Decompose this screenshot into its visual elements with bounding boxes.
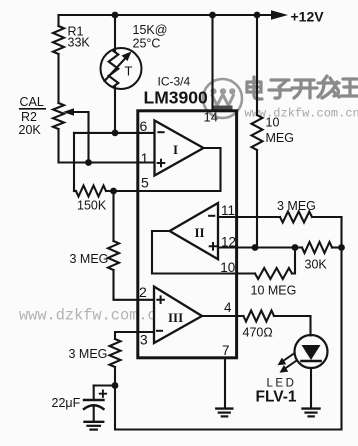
svg-text:R2: R2 (21, 110, 37, 124)
svg-text:MEG: MEG (266, 131, 294, 145)
svg-text:1: 1 (141, 150, 149, 166)
svg-text:LM3900: LM3900 (144, 88, 208, 108)
svg-text:25°C: 25°C (133, 37, 161, 51)
svg-text:11: 11 (221, 203, 235, 218)
svg-text:15K@: 15K@ (133, 23, 168, 37)
svg-text:30K: 30K (305, 258, 328, 272)
svg-text:www.dzkfw.com.cn: www.dzkfw.com.cn (19, 307, 166, 325)
svg-text:T: T (125, 64, 133, 79)
svg-text:6: 6 (140, 118, 148, 134)
svg-text:10: 10 (220, 260, 235, 275)
svg-text:150K: 150K (77, 199, 107, 213)
svg-text:5: 5 (141, 175, 149, 191)
svg-text:20K: 20K (19, 123, 42, 137)
svg-text:14: 14 (204, 110, 218, 125)
svg-text:33K: 33K (68, 36, 91, 50)
svg-text:III: III (168, 310, 183, 325)
svg-text:+12V: +12V (291, 9, 325, 25)
svg-text:4: 4 (224, 300, 232, 315)
svg-text:2: 2 (139, 284, 147, 300)
svg-text:CAL: CAL (20, 95, 44, 109)
svg-text:470Ω: 470Ω (243, 326, 273, 340)
svg-text:IC-3/4: IC-3/4 (158, 75, 191, 89)
svg-text:II: II (195, 225, 205, 240)
svg-text:FLV-1: FLV-1 (256, 389, 297, 406)
svg-text:I: I (173, 142, 178, 157)
svg-text:12: 12 (221, 235, 236, 250)
svg-text:3 MEG: 3 MEG (69, 347, 108, 361)
svg-text:3 MEG: 3 MEG (70, 252, 109, 266)
svg-text:3: 3 (140, 332, 148, 348)
svg-text:10: 10 (266, 116, 280, 130)
svg-text:7: 7 (222, 343, 230, 358)
svg-text:3 MEG: 3 MEG (277, 199, 316, 213)
svg-text:10 MEG: 10 MEG (251, 284, 297, 298)
svg-text:22μF: 22μF (52, 396, 81, 410)
